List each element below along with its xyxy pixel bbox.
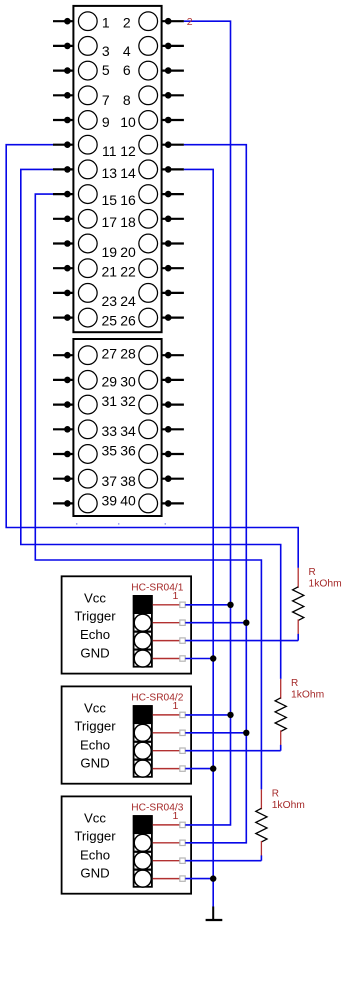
svg-text:3: 3	[102, 43, 110, 59]
svg-text:Vcc: Vcc	[84, 701, 106, 716]
svg-text:14: 14	[120, 165, 136, 181]
svg-text:29: 29	[102, 374, 118, 390]
svg-text:GND: GND	[80, 866, 109, 881]
svg-text:20: 20	[120, 244, 136, 260]
svg-text:7: 7	[102, 92, 110, 108]
svg-text:31: 31	[102, 393, 118, 409]
svg-text:18: 18	[120, 214, 136, 230]
svg-text:2: 2	[187, 16, 193, 28]
svg-text:33: 33	[102, 423, 118, 439]
svg-text:1kOhm: 1kOhm	[291, 690, 324, 701]
svg-text:10: 10	[120, 114, 136, 130]
svg-text:16: 16	[120, 192, 136, 208]
svg-text:R: R	[272, 789, 279, 800]
svg-text:1kOhm: 1kOhm	[309, 579, 342, 590]
svg-text:Trigger: Trigger	[74, 609, 116, 624]
svg-text:1: 1	[172, 590, 178, 602]
svg-text:37: 37	[102, 473, 118, 489]
svg-text:12: 12	[120, 143, 136, 159]
svg-text:15: 15	[102, 192, 118, 208]
svg-text:23: 23	[102, 293, 118, 309]
svg-text:21: 21	[102, 264, 118, 280]
svg-text:GND: GND	[80, 756, 109, 771]
svg-text:4: 4	[123, 43, 131, 59]
svg-text:13: 13	[102, 165, 118, 181]
svg-text:6: 6	[123, 62, 131, 78]
svg-text:30: 30	[120, 374, 136, 390]
svg-text:11: 11	[102, 143, 117, 159]
svg-text:22: 22	[120, 264, 136, 280]
svg-text:R: R	[291, 678, 298, 689]
svg-text:Vcc: Vcc	[84, 591, 106, 606]
svg-text:Echo: Echo	[80, 847, 110, 862]
svg-text:1: 1	[172, 700, 178, 712]
svg-text:Echo: Echo	[80, 627, 110, 642]
svg-text:24: 24	[120, 293, 136, 309]
svg-text:Trigger: Trigger	[74, 829, 116, 844]
svg-text:28: 28	[120, 346, 136, 362]
svg-text:8: 8	[123, 92, 131, 108]
svg-text:5: 5	[102, 62, 110, 78]
svg-text:36: 36	[120, 443, 136, 459]
svg-text:1: 1	[102, 15, 110, 31]
svg-text:25: 25	[102, 312, 118, 328]
svg-text:Trigger: Trigger	[74, 719, 116, 734]
svg-text:1: 1	[172, 810, 178, 822]
svg-text:Echo: Echo	[80, 737, 110, 752]
svg-text:R: R	[309, 567, 316, 578]
svg-text:GND: GND	[80, 646, 109, 661]
svg-text:38: 38	[120, 473, 136, 489]
svg-text:17: 17	[102, 214, 118, 230]
svg-text:34: 34	[120, 423, 136, 439]
svg-text:Vcc: Vcc	[84, 811, 106, 826]
svg-text:32: 32	[120, 393, 136, 409]
svg-text:19: 19	[102, 244, 118, 260]
svg-text:40: 40	[120, 493, 136, 509]
svg-text:39: 39	[102, 493, 118, 509]
svg-text:26: 26	[120, 312, 136, 328]
svg-text:1kOhm: 1kOhm	[272, 800, 305, 811]
svg-text:2: 2	[123, 15, 131, 31]
svg-text:35: 35	[102, 443, 118, 459]
svg-text:27: 27	[102, 346, 118, 362]
svg-text:9: 9	[102, 114, 110, 130]
